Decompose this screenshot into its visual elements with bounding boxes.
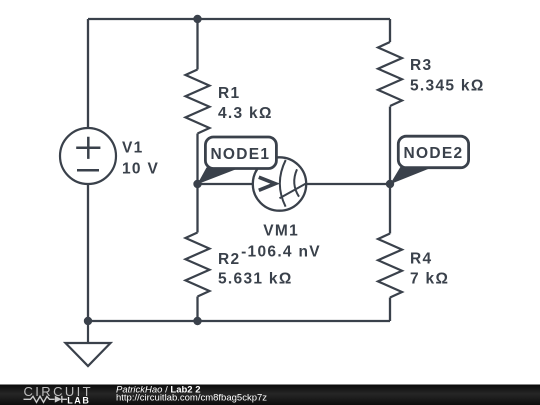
wire top rail [88,18,390,20]
voltage source V1 [60,128,116,184]
svg-text:NODE1: NODE1 [210,146,270,163]
wire left rail lower [87,184,89,321]
svg-text:LAB: LAB [67,395,90,405]
svg-text:4.3 kΩ: 4.3 kΩ [218,105,273,122]
svg-text:-106.4 nV: -106.4 nV [241,244,321,261]
label R3 [410,57,485,94]
svg-text:5.345 kΩ: 5.345 kΩ [410,78,485,95]
svg-text:10 V: 10 V [122,160,159,177]
junction dot node1 [193,180,201,188]
svg-text:R1: R1 [218,85,240,102]
label VM1 [241,222,321,260]
svg-text:7 kΩ: 7 kΩ [410,270,449,287]
node NODE2 callout box [398,136,468,168]
wire middle column bottom [196,297,198,322]
junction dot node2 [386,180,394,188]
svg-text:NODE2: NODE2 [404,145,464,162]
resistor R1 [186,70,210,134]
wire bottom rail [88,320,390,322]
wire middle column top [196,19,198,70]
junction dot top-middle [193,15,201,23]
resistor R3 [378,42,402,106]
wire left rail upper [87,19,89,128]
node NODE1 callout box [205,137,276,169]
CircuitLab logo [24,384,94,405]
voltmeter VM1 [253,157,306,210]
ground [66,321,111,366]
label R2 [218,251,293,288]
wire middle column mid [196,134,198,233]
svg-text:VM1: VM1 [263,222,299,239]
junction dot ground node [84,317,92,325]
resistor R2 [186,233,210,297]
svg-text:R2: R2 [218,251,240,268]
wire right column top [389,19,391,42]
label R4 [410,250,449,287]
svg-text:V1: V1 [122,140,144,157]
svg-text:R4: R4 [410,250,432,267]
node NODE2 callout tail [390,167,430,184]
wire right column mid [389,107,391,234]
resistor R4 [378,234,402,298]
wire right column bottom [389,298,391,322]
label V1 [122,140,159,178]
svg-text:R3: R3 [410,57,432,74]
node NODE1 callout tail [197,168,238,185]
wire middle rail right [306,183,390,185]
svg-text:5.631 kΩ: 5.631 kΩ [218,270,293,287]
junction dot bottom-middle [193,317,201,325]
label R1 [218,85,273,122]
wire middle rail left [198,183,253,185]
svg-text:http://circuitlab.com/cm8fbag5: http://circuitlab.com/cm8fbag5ckp7z [116,393,267,404]
